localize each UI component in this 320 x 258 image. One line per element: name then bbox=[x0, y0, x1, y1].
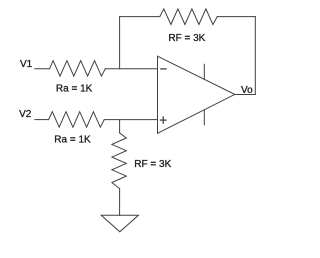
wire: V2 lead to Ra2 bbox=[35, 119, 49, 121]
svg-text:Ra = 1K: Ra = 1K bbox=[56, 84, 93, 95]
wire: V2 node down to RF2 bbox=[119, 120, 121, 133]
pin: non-inverting input plus sign bbox=[160, 119, 166, 121]
resistor RF2 (to ground, RF = 3K, vertical) bbox=[112, 133, 126, 189]
wire: V1 lead to Ra1 bbox=[35, 68, 50, 70]
resistor RF1 (feedback, RF = 3K) bbox=[160, 9, 218, 25]
wire: top rail right segment bbox=[217, 16, 255, 18]
wire: feedback right rail down to output node bbox=[254, 17, 256, 95]
resistor Ra1 (Ra = 1K) bbox=[50, 61, 106, 77]
svg-text:RF = 3K: RF = 3K bbox=[168, 33, 205, 44]
ground bbox=[101, 215, 138, 232]
svg-text:Ra = 1K: Ra = 1K bbox=[54, 135, 91, 146]
pin: positive supply stub bbox=[203, 64, 205, 79]
pin: negative supply stub bbox=[203, 110, 205, 125]
svg-text:RF = 3K: RF = 3K bbox=[134, 159, 171, 170]
wire: output to Vo node bbox=[235, 94, 256, 96]
wire: Ra2 to non-inverting input bbox=[104, 119, 157, 121]
pin: inverting input minus sign bbox=[161, 68, 166, 70]
wire: top rail left segment bbox=[120, 16, 160, 18]
resistor Ra2 (Ra = 1K) bbox=[49, 112, 105, 128]
op-amp U1 triangle bbox=[158, 56, 235, 133]
svg-text:V2: V2 bbox=[19, 109, 32, 120]
svg-text:V1: V1 bbox=[20, 59, 33, 70]
svg-text:Vo: Vo bbox=[241, 85, 253, 96]
wire: Ra1 to inverting input bbox=[105, 68, 157, 70]
wire: RF2 to ground bbox=[119, 189, 121, 216]
wire: feedback left rail from top loop down to V1 node bbox=[119, 17, 121, 69]
